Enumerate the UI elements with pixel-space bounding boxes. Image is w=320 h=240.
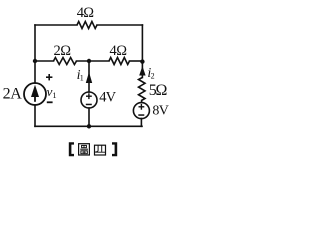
wire top-right horizontal segment <box>97 24 142 26</box>
node junction dot right mid <box>140 59 144 63</box>
wire right vertical upper <box>141 25 143 61</box>
plus sign of v1 polarity <box>46 76 52 78</box>
minus sign of 4V source <box>86 104 92 106</box>
plus sign of 8V source <box>139 106 145 107</box>
node junction dot center mid <box>87 59 91 63</box>
caption bracket right <box>112 142 117 156</box>
node junction dot bottom <box>87 124 91 128</box>
svg-text:i1: i1 <box>77 68 84 83</box>
wire left vertical upper <box>34 25 36 83</box>
wire middle branch upper <box>88 61 90 92</box>
svg-text:i2: i2 <box>147 66 154 81</box>
voltage source V1 4V circle <box>81 92 97 108</box>
svg-text:4Ω: 4Ω <box>109 43 127 59</box>
wire left vertical lower <box>34 105 36 126</box>
wire mid-row left segment <box>35 60 54 62</box>
svg-text:5Ω: 5Ω <box>149 82 168 99</box>
wire right branch below 8V <box>140 119 142 127</box>
svg-text:2Ω: 2Ω <box>53 43 71 59</box>
minus sign of 8V source <box>138 114 144 116</box>
resistor R2 4ohm zigzag <box>109 58 130 65</box>
wire middle branch lower <box>88 108 90 126</box>
wire top-left horizontal segment <box>35 24 77 26</box>
arrow of 2A source <box>31 85 39 97</box>
resistor R top 4ohm zigzag <box>77 22 97 29</box>
arrow i2 on right branch <box>139 66 145 76</box>
svg-text:4V: 4V <box>99 90 116 106</box>
caption bracket left <box>69 142 74 156</box>
resistor R3 5ohm vertical zigzag <box>139 78 146 103</box>
wire right branch arrow-to-resistor <box>141 61 143 78</box>
caption glyph tu (figure) <box>79 144 90 155</box>
svg-text:2A: 2A <box>3 86 23 103</box>
wire bottom horizontal <box>35 125 142 127</box>
svg-text:8V: 8V <box>152 103 168 118</box>
caption glyph four <box>95 145 106 155</box>
svg-text:v1: v1 <box>47 84 57 100</box>
svg-text:4Ω: 4Ω <box>77 5 94 21</box>
plus sign of 4V source <box>86 96 92 97</box>
current source I1 2A circle <box>24 83 46 105</box>
arrow i1 on middle branch <box>86 72 92 83</box>
node junction dot left mid <box>33 59 37 63</box>
voltage source V2 8V circle <box>133 103 149 119</box>
resistor R1 2ohm zigzag <box>54 58 77 65</box>
minus sign of v1 polarity <box>47 101 53 103</box>
wire mid-row right segment <box>130 60 143 62</box>
wire mid-row center segment <box>77 60 110 62</box>
